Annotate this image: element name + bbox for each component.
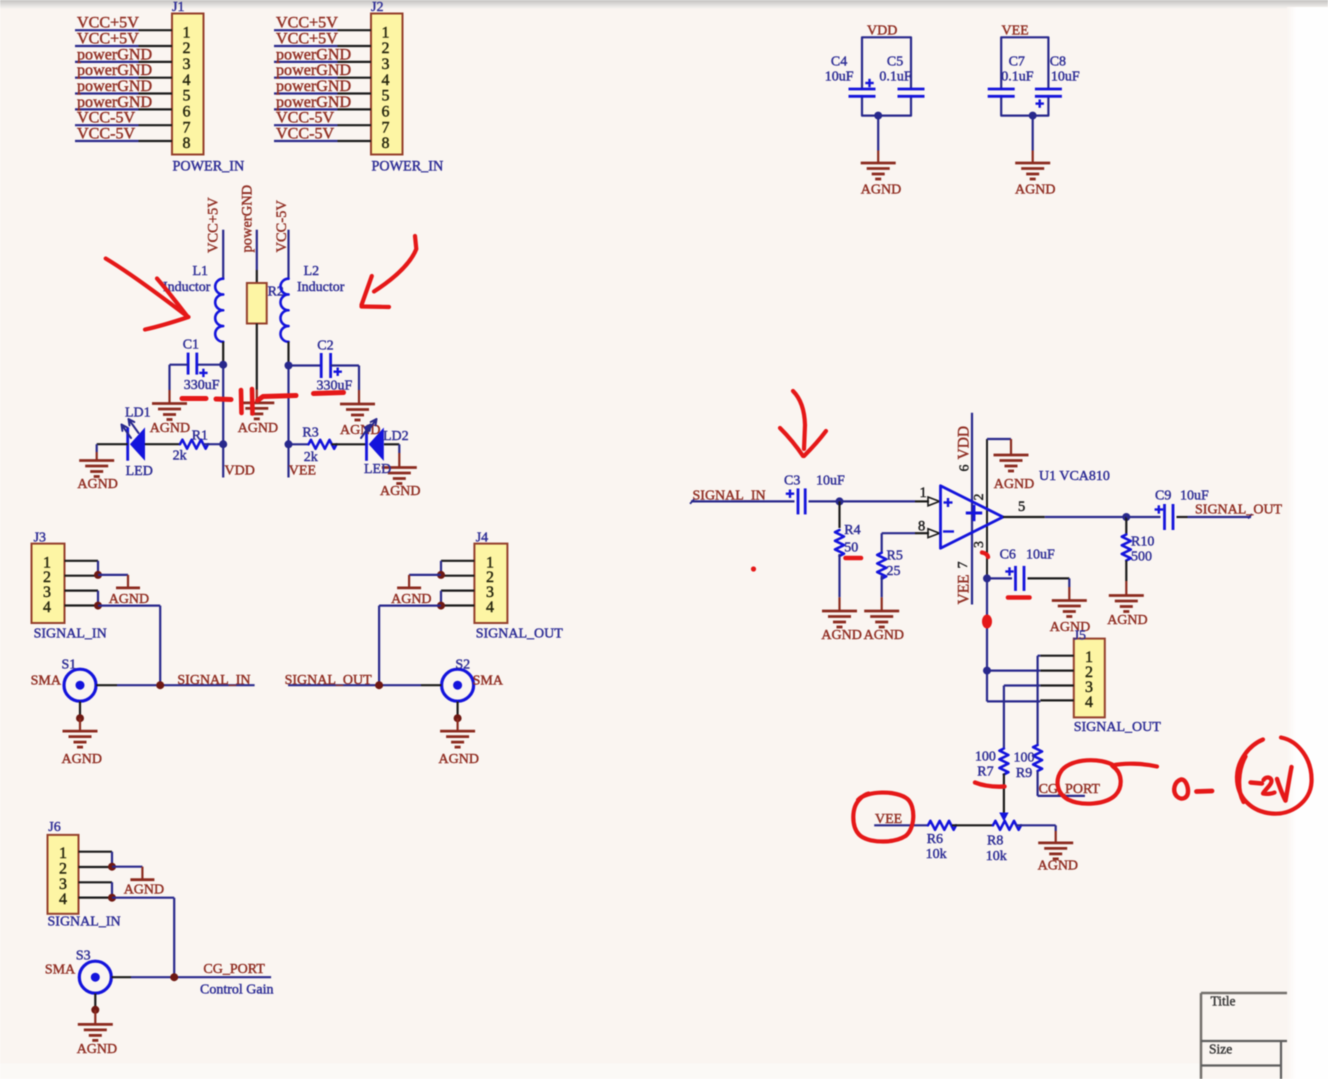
svg-text:C1: C1 <box>183 338 199 353</box>
svg-text:R8: R8 <box>987 834 1003 849</box>
svg-text:AGND: AGND <box>439 752 479 767</box>
svg-text:1: 1 <box>183 24 191 41</box>
svg-text:powerGND: powerGND <box>77 78 152 95</box>
svg-text:C3: C3 <box>784 474 800 489</box>
svg-text:VEE: VEE <box>289 464 316 479</box>
svg-text:Control Gain: Control Gain <box>200 982 274 997</box>
svg-text:2: 2 <box>183 40 191 57</box>
svg-text:powerGND: powerGND <box>276 62 351 79</box>
svg-text:L2: L2 <box>304 264 320 279</box>
svg-text:5: 5 <box>1018 499 1025 515</box>
svg-text:AGND: AGND <box>994 477 1034 492</box>
svg-text:SIGNAL_OUT: SIGNAL_OUT <box>1074 720 1162 735</box>
svg-text:L1: L1 <box>193 264 209 279</box>
svg-text:C6: C6 <box>1000 548 1016 563</box>
svg-text:S3: S3 <box>76 949 91 964</box>
svg-text:J2: J2 <box>371 0 383 15</box>
svg-text:SMA: SMA <box>473 674 504 689</box>
svg-text:R4: R4 <box>844 523 860 538</box>
svg-text:J5: J5 <box>1074 629 1086 644</box>
svg-text:VCC+5V: VCC+5V <box>77 31 139 48</box>
svg-text:4: 4 <box>183 72 191 89</box>
svg-text:25: 25 <box>887 564 901 579</box>
svg-text:100: 100 <box>975 750 996 765</box>
svg-text:2k: 2k <box>173 449 187 464</box>
svg-text:3: 3 <box>972 541 987 548</box>
svg-text:J3: J3 <box>34 531 46 546</box>
svg-text:LD1: LD1 <box>125 406 151 421</box>
svg-text:4: 4 <box>382 72 390 89</box>
svg-text:AGND: AGND <box>150 421 190 436</box>
svg-text:C7: C7 <box>1009 55 1025 70</box>
svg-text:AGND: AGND <box>864 628 904 643</box>
svg-text:6: 6 <box>382 104 390 121</box>
svg-text:10k: 10k <box>986 849 1007 864</box>
svg-text:VCC+5V: VCC+5V <box>77 15 139 32</box>
svg-text:6: 6 <box>958 465 973 472</box>
svg-text:7: 7 <box>382 119 390 136</box>
svg-text:10uF: 10uF <box>816 474 845 489</box>
svg-text:Size: Size <box>1209 1042 1232 1057</box>
svg-text:R3: R3 <box>302 425 318 440</box>
svg-text:R1: R1 <box>192 428 208 443</box>
svg-text:powerGND: powerGND <box>276 94 351 111</box>
svg-text:1: 1 <box>382 24 390 41</box>
svg-text:AGND: AGND <box>1015 183 1055 198</box>
svg-text:AGND: AGND <box>124 883 164 898</box>
svg-text:VDD: VDD <box>225 464 255 479</box>
svg-text:5: 5 <box>382 88 390 105</box>
svg-text:U1 VCA810: U1 VCA810 <box>1039 469 1110 484</box>
svg-text:VDD: VDD <box>867 24 897 39</box>
svg-text:4: 4 <box>486 599 494 616</box>
svg-text:7: 7 <box>183 119 191 136</box>
svg-text:VCC-5V: VCC-5V <box>77 126 135 143</box>
svg-text:8: 8 <box>183 135 191 152</box>
svg-text:50: 50 <box>844 541 858 556</box>
svg-text:2k: 2k <box>304 450 318 465</box>
svg-text:VCC-5V: VCC-5V <box>276 110 334 127</box>
svg-text:2: 2 <box>972 494 987 501</box>
svg-text:C8: C8 <box>1050 55 1066 70</box>
svg-text:4: 4 <box>43 599 51 616</box>
svg-text:VCC+5V: VCC+5V <box>206 197 222 253</box>
svg-text:100: 100 <box>1014 751 1035 766</box>
svg-text:S1: S1 <box>62 658 77 673</box>
svg-text:J6: J6 <box>48 820 60 835</box>
svg-text:AGND: AGND <box>77 477 117 492</box>
svg-text:AGND: AGND <box>380 484 420 499</box>
svg-text:AGND: AGND <box>821 628 861 643</box>
svg-text:J1: J1 <box>172 0 184 15</box>
svg-text:C9: C9 <box>1155 489 1171 504</box>
svg-text:AGND: AGND <box>77 1042 117 1057</box>
svg-text:C4: C4 <box>831 55 847 70</box>
svg-text:500: 500 <box>1131 550 1152 565</box>
svg-text:AGND: AGND <box>1107 613 1147 628</box>
svg-text:10uF: 10uF <box>1180 489 1209 504</box>
svg-text:VCC+5V: VCC+5V <box>276 15 338 32</box>
svg-text:SIGNAL_OUT: SIGNAL_OUT <box>285 673 373 688</box>
svg-text:2: 2 <box>382 40 390 57</box>
svg-text:Inductor: Inductor <box>297 280 345 295</box>
svg-text:CG_PORT: CG_PORT <box>203 962 265 977</box>
svg-text:SIGNAL_IN: SIGNAL_IN <box>34 627 107 642</box>
svg-text:SMA: SMA <box>31 674 62 689</box>
svg-text:LD2: LD2 <box>383 429 409 444</box>
svg-text:R10: R10 <box>1131 535 1154 550</box>
svg-text:4: 4 <box>59 891 67 908</box>
svg-text:AGND: AGND <box>861 183 901 198</box>
svg-text:VCC+5V: VCC+5V <box>276 31 338 48</box>
svg-text:SIGNAL_IN: SIGNAL_IN <box>177 673 250 688</box>
svg-text:10uF: 10uF <box>1051 70 1080 85</box>
svg-text:AGND: AGND <box>62 752 102 767</box>
svg-text:AGND: AGND <box>238 421 278 436</box>
svg-text:SIGNAL_IN: SIGNAL_IN <box>48 914 121 929</box>
svg-text:Title: Title <box>1211 994 1236 1009</box>
svg-text:POWER_IN: POWER_IN <box>372 159 444 175</box>
svg-text:LED: LED <box>126 464 153 479</box>
svg-text:POWER_IN: POWER_IN <box>173 159 245 175</box>
svg-text:powerGND: powerGND <box>77 94 152 111</box>
svg-text:7: 7 <box>956 562 971 569</box>
svg-text:AGND: AGND <box>340 423 380 438</box>
svg-text:J4: J4 <box>476 531 488 546</box>
svg-text:VCC-5V: VCC-5V <box>276 126 334 143</box>
svg-text:LED: LED <box>364 462 391 477</box>
svg-text:5: 5 <box>183 88 191 105</box>
svg-text:R9: R9 <box>1016 766 1032 781</box>
svg-text:330uF: 330uF <box>184 378 220 393</box>
svg-text:S2: S2 <box>455 658 470 673</box>
svg-text:R6: R6 <box>927 832 943 847</box>
svg-text:10uF: 10uF <box>825 70 854 85</box>
svg-text:R5: R5 <box>887 549 903 564</box>
svg-text:10k: 10k <box>926 847 947 862</box>
svg-text:powerGND: powerGND <box>276 78 351 95</box>
svg-text:VEE: VEE <box>1002 24 1029 39</box>
svg-text:powerGND: powerGND <box>77 62 152 79</box>
svg-text:1: 1 <box>920 485 927 501</box>
svg-text:4: 4 <box>1085 694 1093 711</box>
svg-text:0.1uF: 0.1uF <box>879 70 912 85</box>
svg-text:AGND: AGND <box>1038 859 1078 874</box>
svg-text:C5: C5 <box>887 55 903 70</box>
svg-text:10uF: 10uF <box>1026 548 1055 563</box>
svg-text:0.1uF: 0.1uF <box>1001 70 1033 85</box>
svg-text:6: 6 <box>183 104 191 121</box>
svg-text:8: 8 <box>918 519 925 535</box>
svg-text:8: 8 <box>382 135 390 152</box>
svg-text:3: 3 <box>382 56 390 73</box>
svg-text:C2: C2 <box>317 339 333 354</box>
svg-text:SIGNAL_OUT: SIGNAL_OUT <box>476 627 564 642</box>
svg-text:VDD: VDD <box>956 426 973 460</box>
svg-text:SMA: SMA <box>45 963 76 978</box>
svg-text:powerGND: powerGND <box>276 46 351 63</box>
svg-text:powerGND: powerGND <box>239 185 255 253</box>
svg-text:R7: R7 <box>977 765 993 780</box>
svg-text:VCC-5V: VCC-5V <box>77 110 135 127</box>
svg-text:SIGNAL_OUT: SIGNAL_OUT <box>1195 503 1283 518</box>
svg-text:CG_PORT: CG_PORT <box>1039 782 1101 797</box>
svg-text:VEE: VEE <box>956 574 973 604</box>
svg-text:powerGND: powerGND <box>77 46 152 63</box>
svg-text:3: 3 <box>183 56 191 73</box>
